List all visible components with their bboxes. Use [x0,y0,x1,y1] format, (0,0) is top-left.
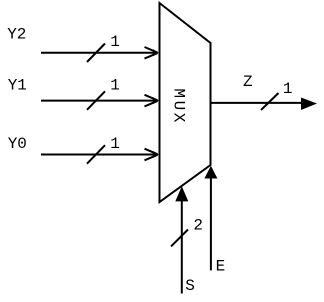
svg-text:Y2: Y2 [7,25,26,43]
svg-text:MUX: MUX [170,88,188,125]
svg-text:1: 1 [110,33,120,51]
svg-text:S: S [185,277,195,295]
svg-text:2: 2 [193,217,203,235]
svg-text:Y0: Y0 [8,135,27,153]
svg-text:1: 1 [283,80,293,98]
svg-text:1: 1 [110,135,120,153]
svg-text:Z: Z [243,73,253,91]
svg-text:E: E [216,258,226,276]
svg-text:Y1: Y1 [8,77,27,95]
svg-text:1: 1 [110,77,120,95]
